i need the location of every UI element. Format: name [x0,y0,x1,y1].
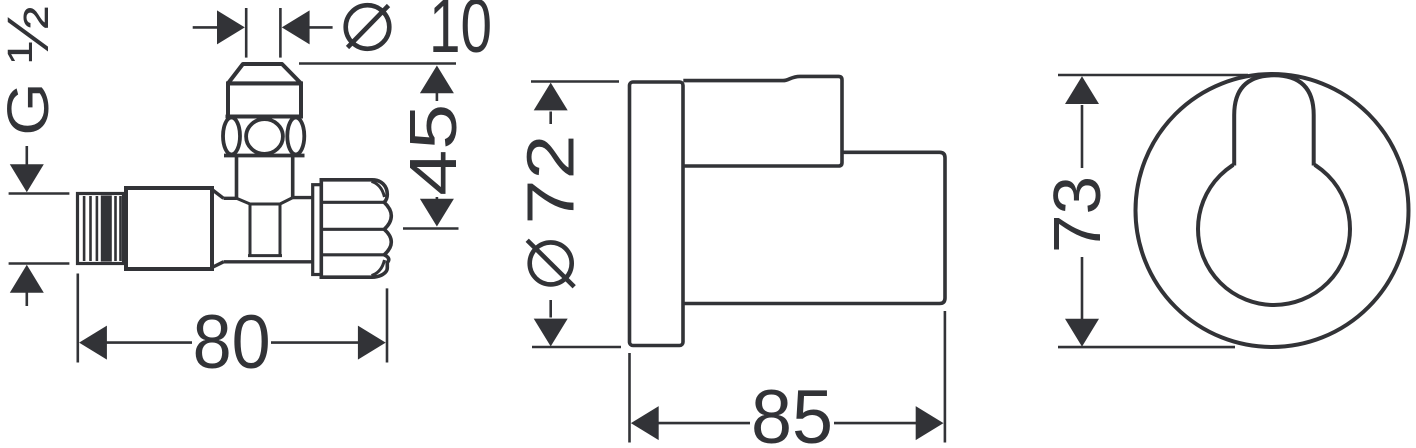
label 45 (rotated) [396,104,471,196]
vertical outlet neck [237,154,293,198]
svg-text:73: 73 [1040,176,1115,253]
center section top/bottom lines [224,198,313,262]
wall plate escutcheon [630,82,684,346]
body-to-center chamfers and center section [212,190,224,268]
label O 72 (rotated) [514,135,589,287]
dimension 73 [1058,75,1248,347]
bonnet hex section with ellipses [223,117,305,156]
svg-text:10: 10 [429,0,492,69]
label O 10 [346,0,492,69]
svg-text:85: 85 [751,375,833,448]
threaded inlet pipe G1/2 [78,194,124,264]
arrow right 80 [358,326,386,360]
dimension 80 [78,274,387,363]
main cylinder (knob from side) [683,152,945,303]
arrow up 45 [420,66,454,94]
knob rib lines [321,202,384,255]
svg-text:80: 80 [193,300,271,385]
arrow up 73 [1065,76,1099,104]
arrow right 85 [916,406,944,440]
cap rectangle [228,83,301,116]
svg-text:G ½: G ½ [0,6,61,136]
cap top trapezoid [228,64,301,83]
dimension G 1/2 [9,146,70,306]
dimension 85 [630,311,945,443]
knob flange [313,185,322,275]
dimension O10 [193,8,333,58]
cap boundary line [228,81,301,85]
svg-text:72: 72 [514,135,589,225]
arrow down 45 [420,199,454,227]
outer escutcheon circle [1136,74,1409,347]
label 73 (rotated) [1040,176,1115,253]
arrow down 73 [1065,319,1099,347]
grip arch [1234,75,1314,167]
arrow left 85 [631,406,659,440]
knurled knob body outline with scalloped right edge [321,180,391,277]
dimension 45 [299,64,459,229]
inner knob circle [1198,153,1350,305]
outlet block [683,76,842,166]
arrow right O10 [217,10,245,44]
valve seat inner rectangle [248,204,282,256]
dimension O72 [531,82,621,348]
arrow left 80 [79,326,107,360]
label G 1/2 (rotated) [0,6,61,136]
arrow up O72 [534,83,568,111]
svg-text:45: 45 [396,104,471,196]
main valve body [126,188,212,269]
arrow down G1/2 [10,164,44,192]
arrow up G1/2 [10,265,44,293]
arrow left O10 [282,10,310,44]
arrow down O72 [534,319,568,347]
knob front-rim corner arcs [372,182,385,276]
